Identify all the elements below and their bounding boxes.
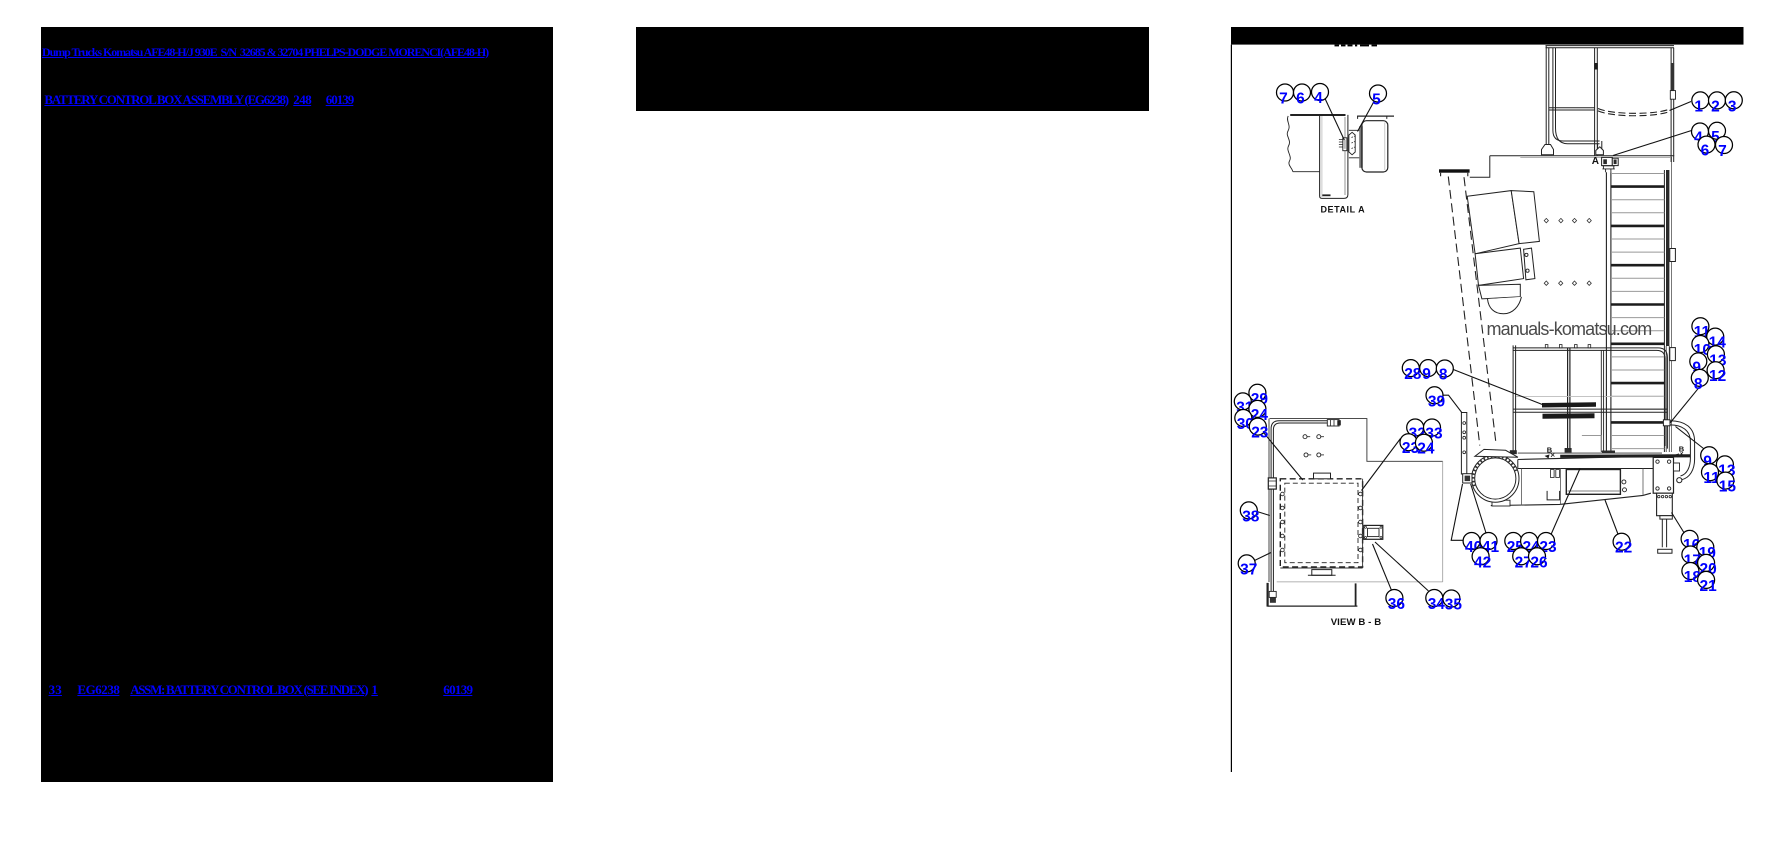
- rail bracket right: [1663, 420, 1670, 426]
- leader 1: [1670, 102, 1692, 111]
- callout 5: [1370, 85, 1387, 109]
- leader 23-24 cluster: [1362, 439, 1401, 491]
- bottom tab: [1312, 570, 1332, 576]
- leader 23 bottom: [1551, 469, 1580, 535]
- callout 29: [1249, 384, 1269, 408]
- callout 24: [1249, 400, 1269, 424]
- cage feet: [1542, 145, 1554, 155]
- curved rail right: [1670, 421, 1695, 480]
- callout 16: [1681, 530, 1701, 554]
- callout 3: [1725, 92, 1742, 116]
- link line 3: [49, 682, 62, 698]
- svg-text:39: 39: [1428, 393, 1446, 410]
- battery box dashed: [1280, 479, 1362, 567]
- leader 22: [1605, 500, 1619, 536]
- callout 10: [1692, 336, 1711, 360]
- tube joint: [1268, 478, 1276, 489]
- callout 9: [1690, 353, 1707, 377]
- svg-text:12: 12: [1709, 368, 1726, 385]
- callout 5: [1709, 122, 1726, 146]
- link line 1: [42, 45, 488, 60]
- callout 14: [1707, 328, 1727, 352]
- callout 19: [1697, 539, 1717, 563]
- right connector block: [1364, 525, 1383, 539]
- callout 33: [1424, 419, 1444, 443]
- leader 5 detail A: [1358, 101, 1375, 132]
- svg-text:21: 21: [1700, 578, 1718, 595]
- callout 35: [1443, 590, 1463, 614]
- callout 9: [1420, 360, 1437, 384]
- callout 32: [1407, 419, 1426, 443]
- A bolt flange: [1602, 166, 1614, 173]
- callout 26: [1529, 548, 1549, 572]
- callout 22: [1613, 533, 1632, 557]
- mid horizontal rail: [1549, 108, 1595, 110]
- svg-text:36: 36: [1388, 596, 1406, 613]
- callout 24: [1521, 533, 1541, 557]
- svg-text:B: B: [1679, 445, 1685, 454]
- callout 12: [1707, 362, 1726, 386]
- callout 21: [1698, 571, 1718, 595]
- under-deck frame: [1566, 470, 1620, 495]
- svg-text:manuals-komatsu.com: manuals-komatsu.com: [1487, 319, 1652, 339]
- middle black panel: [636, 27, 1149, 111]
- platform railing: [1513, 345, 1667, 454]
- svg-text:42: 42: [1474, 554, 1491, 571]
- svg-text:15: 15: [1719, 479, 1737, 496]
- right post: [1671, 48, 1674, 162]
- leader 9-13: [1676, 427, 1704, 449]
- mid post: [1595, 48, 1598, 156]
- leader 39: [1443, 395, 1462, 413]
- callout 36: [1386, 590, 1406, 614]
- link line 2: [44, 92, 287, 108]
- column dashed edges: [1448, 177, 1480, 446]
- deck lines: [1518, 452, 1662, 454]
- callout 4: [1312, 84, 1329, 108]
- callout 8: [1436, 360, 1453, 384]
- tube top connector: [1327, 420, 1339, 426]
- callout 25: [1505, 533, 1525, 557]
- inner rail with corner: [1553, 48, 1600, 141]
- callout 6: [1698, 136, 1715, 160]
- leader 41: [1471, 484, 1486, 533]
- callout 2: [1709, 92, 1726, 116]
- svg-text:VIEW B - B: VIEW B - B: [1331, 617, 1382, 628]
- svg-text:6: 6: [1296, 91, 1305, 108]
- conduit tube: [1271, 421, 1327, 592]
- ladder rails: [1606, 172, 1611, 451]
- handrail cage top bar: [1546, 46, 1675, 162]
- svg-text:6: 6: [1701, 143, 1710, 160]
- callout 1: [1692, 92, 1709, 116]
- lower step: [1266, 583, 1268, 607]
- top tab: [1314, 473, 1331, 479]
- step treads dark: [1542, 402, 1596, 407]
- left black panel: [41, 27, 553, 782]
- callout 38: [1240, 502, 1260, 526]
- callout 42: [1472, 548, 1491, 572]
- svg-text:35: 35: [1445, 597, 1463, 614]
- post at ladder: [1601, 350, 1603, 452]
- B markers: [1547, 445, 1685, 455]
- svg-text:38: 38: [1242, 508, 1260, 525]
- svg-text:37: 37: [1240, 561, 1257, 578]
- tilted cabinet boxes: [1467, 191, 1539, 299]
- svg-text:23: 23: [1251, 425, 1269, 442]
- callout 11: [1702, 464, 1721, 488]
- box solid edges: [1280, 479, 1362, 568]
- detail A: bolt, washers, nut: [1339, 132, 1355, 155]
- callout 9: [1701, 447, 1718, 471]
- callout 23: [1249, 418, 1269, 442]
- callout 30: [1235, 410, 1254, 434]
- rail brackets: [1670, 249, 1676, 262]
- callout 41: [1480, 533, 1500, 557]
- callout 11: [1692, 318, 1711, 342]
- callout 23: [1538, 533, 1558, 557]
- callout 23: [1400, 434, 1420, 458]
- leg block: [1657, 493, 1673, 516]
- far floor line: [1516, 395, 1664, 397]
- svg-text:7: 7: [1718, 143, 1727, 160]
- svg-text:3: 3: [1728, 98, 1737, 115]
- callout 24: [1415, 434, 1435, 458]
- leader 16: [1672, 513, 1685, 534]
- rivet dot rows: [1544, 218, 1591, 285]
- column top flange: [1439, 169, 1470, 172]
- step outline: [1582, 435, 1601, 450]
- svg-text:4: 4: [1314, 90, 1323, 107]
- leader 37: [1255, 553, 1272, 561]
- leader 36: [1373, 544, 1392, 590]
- covered view-title sliver: [1335, 45, 1378, 47]
- rail rivets: [1545, 345, 1548, 348]
- svg-text:A: A: [1592, 156, 1599, 167]
- callout 17: [1682, 546, 1701, 570]
- strip clamp: [1463, 474, 1472, 483]
- svg-text:7: 7: [1279, 91, 1288, 108]
- callout 13: [1707, 346, 1727, 370]
- callout 27: [1513, 548, 1532, 572]
- air cylinder: [1472, 455, 1519, 502]
- callout 15: [1717, 472, 1737, 496]
- callout 13: [1716, 456, 1736, 480]
- bolt detail pairs: [1303, 435, 1307, 439]
- leader 4 detail A: [1325, 99, 1344, 141]
- leader 4 upper: [1613, 131, 1692, 156]
- svg-text:8: 8: [1439, 367, 1448, 384]
- svg-text:22: 22: [1615, 540, 1632, 557]
- leader trio 8: [1453, 370, 1543, 405]
- callout 7: [1277, 84, 1294, 108]
- top black bar: [1231, 27, 1744, 45]
- svg-text:24: 24: [1417, 441, 1435, 458]
- leader 38: [1257, 512, 1270, 516]
- post splice marks: [1594, 63, 1598, 70]
- right bracket plate: [1653, 457, 1673, 493]
- callout 18: [1682, 563, 1702, 587]
- detail A: mounting plate: [1287, 115, 1348, 198]
- tube bottom connector: [1269, 591, 1276, 597]
- leader 40: [1451, 484, 1463, 540]
- detail A: clamped component: [1349, 116, 1394, 172]
- dome under boxes: [1488, 297, 1522, 314]
- drooping cable: [1598, 109, 1671, 114]
- left outer post: [1546, 46, 1549, 148]
- callout 6: [1294, 84, 1311, 108]
- part 39 strip: [1461, 413, 1466, 475]
- leader 34-35: [1375, 542, 1429, 591]
- body left step: [1470, 156, 1490, 178]
- platform top edge: [1490, 155, 1674, 157]
- callout 39: [1426, 387, 1446, 411]
- callout 28: [1402, 360, 1422, 384]
- rail end stub: [1598, 141, 1602, 150]
- svg-text:2: 2: [1711, 98, 1720, 115]
- svg-text:9: 9: [1422, 366, 1431, 383]
- leader 23 view BB: [1264, 433, 1303, 481]
- callout 4: [1692, 123, 1709, 147]
- svg-text:DETAIL A: DETAIL A: [1321, 205, 1366, 215]
- view B-B outer boundary: [1270, 419, 1443, 462]
- left border line: [1230, 45, 1232, 772]
- callout 40: [1463, 533, 1482, 557]
- svg-text:5: 5: [1372, 92, 1381, 109]
- callout 31: [1234, 393, 1254, 417]
- callout 20: [1698, 554, 1717, 578]
- A bolt block: [1602, 157, 1619, 165]
- callout 7: [1716, 137, 1733, 161]
- leader 8 right: [1670, 386, 1700, 423]
- railing feet: [1510, 450, 1517, 454]
- callout 34: [1426, 590, 1446, 614]
- ladder rungs: [1611, 174, 1664, 449]
- svg-text:26: 26: [1530, 554, 1548, 571]
- svg-text:8: 8: [1694, 376, 1703, 393]
- callout 8: [1691, 369, 1708, 393]
- svg-text:1: 1: [1694, 98, 1703, 115]
- callout 37: [1238, 555, 1257, 579]
